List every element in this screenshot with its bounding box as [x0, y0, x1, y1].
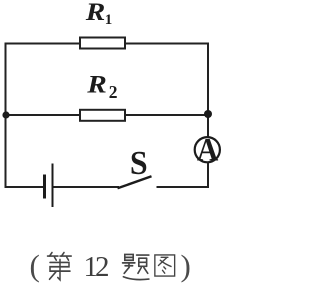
svg-text:A: A [197, 131, 219, 168]
wire: bottom middle horizontal (battery to switch) [54, 186, 120, 188]
wire: right vertical lower (ammeter to bottom) [207, 163, 209, 189]
svg-text:12: 12 [84, 251, 109, 283]
wire: right vertical upper [207, 43, 209, 139]
node: right junction dot [204, 110, 212, 118]
svg-text:): ) [181, 248, 191, 283]
svg-text:2: 2 [109, 82, 118, 102]
wire: top horizontal (R1 branch) [6, 43, 209, 45]
battery: long plate (positive) [52, 164, 54, 208]
ammeter A [195, 137, 220, 162]
svg-text:R: R [86, 70, 107, 98]
wire: bottom left horizontal [5, 186, 45, 188]
svg-text:(: ( [30, 248, 40, 283]
caption: character 题 [123, 254, 149, 279]
wire: left vertical [5, 43, 7, 189]
battery: short plate (negative) [43, 175, 46, 199]
svg-text:1: 1 [105, 12, 113, 28]
resistor R1 [80, 38, 125, 49]
svg-text:S: S [130, 145, 148, 182]
resistor R2 [80, 110, 125, 121]
svg-text:R: R [85, 0, 106, 26]
caption: character 第 [48, 253, 72, 280]
switch S lever [118, 176, 152, 188]
wire: middle horizontal (R2 branch) [6, 114, 209, 116]
caption: character 图 [155, 255, 175, 276]
node: left junction dot [2, 111, 9, 118]
wire: bottom right horizontal [157, 186, 210, 188]
